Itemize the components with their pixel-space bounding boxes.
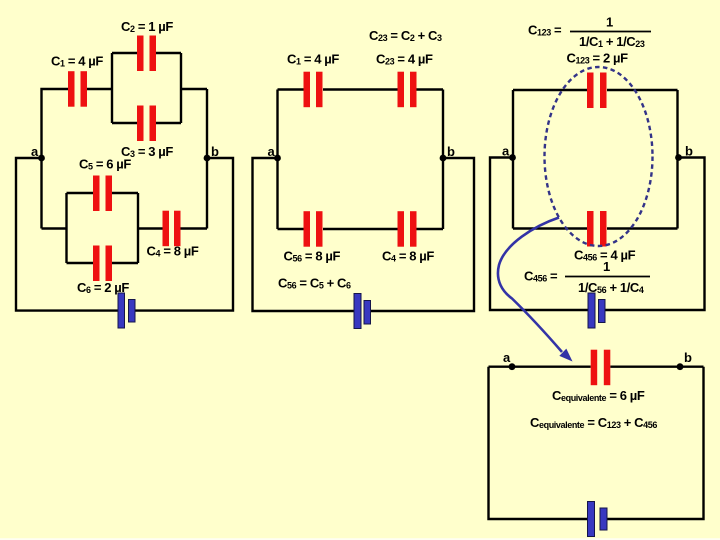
svg-text:b: b — [447, 144, 455, 159]
wire: C5 branch top — [67, 192, 139, 194]
capacitor C4 (circuit 2) — [398, 211, 417, 247]
wire: parallel block right edge — [180, 53, 182, 123]
svg-text:C5 = 6 µF: C5 = 6 µF — [79, 157, 131, 172]
node b (circuit 4) — [677, 363, 684, 370]
svg-text:C6 = 2 µF: C6 = 2 µF — [77, 280, 129, 295]
wire: rect bottom branch — [278, 228, 444, 230]
svg-text:C1 = 4 µF: C1 = 4 µF — [287, 52, 339, 67]
wire: rect left edge — [276, 90, 278, 230]
node a (circuit 4) — [509, 363, 516, 370]
capacitor C5 — [93, 176, 112, 212]
wire: parallel block left edge — [111, 53, 113, 123]
wire: node a to C5C6 block — [42, 227, 67, 229]
node b — [204, 155, 211, 162]
wire: rect bottom branch — [513, 227, 678, 229]
wire: outer loop left with battery gap — [16, 158, 118, 311]
wire: C5C6 block right edge — [137, 193, 139, 263]
wire: C2 branch top — [112, 52, 181, 54]
battery B1 — [118, 293, 135, 328]
fraction bar C456 — [565, 276, 650, 278]
svg-text:1/C1 + 1/C23: 1/C1 + 1/C23 — [579, 34, 645, 49]
svg-text:C4 = 8 µF: C4 = 8 µF — [382, 249, 434, 264]
wire: C1 to parallel block — [87, 88, 112, 90]
svg-text:C4 = 8 µF: C4 = 8 µF — [147, 244, 199, 259]
svg-text:1: 1 — [606, 14, 613, 29]
node b (circuit 3) — [675, 154, 682, 161]
blue arrow curve — [498, 218, 562, 353]
capacitor C2 — [137, 36, 156, 72]
battery B2 — [354, 294, 371, 329]
capacitor C123 — [587, 73, 607, 109]
svg-text:b: b — [684, 350, 692, 365]
wire: outer loop right — [135, 158, 233, 311]
wire: C5C6 block left edge — [65, 193, 67, 263]
wire: C4 to node b — [181, 227, 208, 229]
capacitor C456 — [587, 211, 607, 247]
capacitor Cequivalente — [591, 350, 611, 386]
fraction bar C123 — [570, 31, 651, 33]
capacitor C56 — [304, 211, 323, 247]
wire: outer loop left with battery gap — [253, 158, 355, 311]
wire: rect top branch — [278, 88, 444, 90]
wire: rect top branch — [513, 89, 678, 91]
svg-text:C56 = 8 µF: C56 = 8 µF — [284, 249, 341, 264]
wire: top with equivalent capacitor — [489, 366, 704, 368]
wire: rect left edge — [512, 90, 514, 229]
svg-text:a: a — [31, 144, 39, 159]
svg-text:b: b — [685, 144, 693, 159]
battery B3 — [588, 293, 605, 328]
capacitor C23 — [398, 72, 417, 108]
node a (circuit 2) — [274, 155, 281, 162]
capacitor C6 — [93, 246, 112, 282]
svg-text:a: a — [268, 144, 276, 159]
svg-text:a: a — [503, 350, 511, 365]
wire: outer loop with battery gap — [489, 367, 704, 519]
svg-text:C1 = 4 µF: C1 = 4 µF — [51, 54, 103, 69]
capacitor C1 — [68, 71, 87, 107]
node a — [38, 155, 45, 162]
wire: block to node b vertical — [181, 89, 207, 229]
wire: outer loop right — [605, 158, 705, 311]
svg-text:b: b — [211, 144, 219, 159]
wire: rect right edge — [676, 90, 678, 229]
wire: node a up and to C1 — [42, 89, 69, 229]
svg-text:C23 = 4 µF: C23 = 4 µF — [376, 52, 433, 67]
wire: outer loop right — [370, 158, 474, 311]
blue arrow head — [560, 350, 571, 361]
node a (circuit 3) — [509, 154, 516, 161]
wire: outer loop left with battery gap — [490, 158, 588, 311]
svg-text:1: 1 — [603, 259, 610, 274]
node b (circuit 2) — [440, 155, 447, 162]
svg-text:a: a — [502, 144, 510, 159]
wire: C3 branch bottom — [112, 122, 181, 124]
wire: block to C4 — [138, 227, 163, 229]
capacitor C1 (circuit 2) — [304, 72, 323, 108]
dashed ellipse highlight — [545, 67, 653, 246]
svg-text:C2 = 1 µF: C2 = 1 µF — [121, 19, 173, 34]
battery B4 — [588, 502, 608, 537]
svg-text:1/C56 + 1/C4: 1/C56 + 1/C4 — [578, 280, 644, 295]
wire: rect right edge — [442, 90, 444, 230]
bottom edge light strip — [0, 538, 720, 540]
capacitor C4 — [163, 211, 181, 247]
wire: C6 branch bottom — [67, 262, 139, 264]
capacitor C3 — [137, 106, 156, 142]
